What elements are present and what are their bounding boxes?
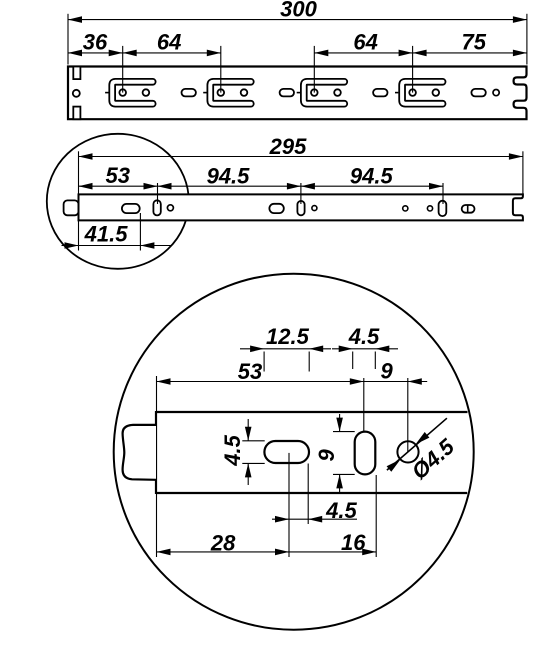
rail 2 vertical oval slot 1 [153, 200, 160, 215]
svg-text:64: 64 [157, 30, 181, 55]
extension line v-oval right edge down [375, 475, 377, 557]
top rail left bracket notch bottom [73, 107, 80, 120]
extension line v-oval3 [442, 183, 444, 204]
dimension 295 line [79, 156, 523, 158]
rail 2 hole 2 [312, 206, 317, 211]
extension line to C-slot hole [412, 46, 414, 93]
svg-text:64: 64 [353, 30, 377, 55]
svg-text:53: 53 [106, 163, 130, 188]
detail rail band [156, 411, 468, 413]
rail 2 hole 1 [167, 205, 173, 211]
oval slot after C-slot 1 [182, 89, 196, 97]
dimension 53 rail2 line [79, 185, 158, 187]
detail magnifier circle [114, 274, 474, 630]
rail 2 double oval slot [462, 205, 475, 213]
dimension 64 second line [314, 52, 412, 54]
detail callout circle on rail 2 [47, 134, 189, 269]
extension line rail1 right edge [526, 14, 528, 65]
extension line rail1 left edge [67, 14, 69, 65]
top rail body with right-end notches [68, 67, 527, 120]
svg-text:300: 300 [280, 0, 317, 22]
rail 2 hole 4 [427, 206, 432, 211]
extension line to C-slot hole [122, 46, 124, 93]
svg-text:75: 75 [462, 30, 487, 55]
dimension 9 horizontal arrow [408, 378, 422, 385]
extension line v-oval1 [157, 183, 159, 204]
extension line to C-slot hole [220, 46, 222, 93]
svg-text:Ø4.5: Ø4.5 [407, 433, 460, 484]
top rail left hole [73, 90, 80, 97]
svg-text:41.5: 41.5 [84, 221, 129, 246]
svg-text:28: 28 [210, 530, 236, 555]
svg-text:4.5: 4.5 [348, 324, 380, 349]
dimension 4.5 top line [332, 348, 398, 350]
oval slot after C-slot 2 [280, 89, 294, 97]
svg-text:9: 9 [380, 358, 393, 383]
svg-text:4.5: 4.5 [325, 498, 357, 523]
dimension 28 line [157, 551, 290, 553]
extension line rail2 left edge [78, 151, 80, 194]
svg-text:16: 16 [341, 530, 366, 555]
extension line v-oval2 [300, 183, 302, 204]
extension stubs for 4.5 top [352, 352, 354, 370]
C-slot 4 [395, 82, 443, 104]
small hole right group rail 1 [493, 90, 499, 96]
oval slot after C-slot 4 [471, 89, 485, 97]
dimension 36 line [68, 52, 123, 54]
dimension 12.5 line [240, 348, 331, 350]
extension line rail2 right edge [522, 151, 524, 194]
dimension 94.5 first line [158, 185, 301, 187]
detail horizontal oval slot [264, 441, 309, 463]
C-slot 3 [297, 82, 345, 104]
detail left tab [123, 425, 156, 480]
rail 2 horizontal oval slot 1 [122, 204, 140, 213]
svg-text:4.5: 4.5 [220, 434, 245, 466]
oval slot after C-slot 3 [373, 89, 387, 97]
svg-text:295: 295 [269, 134, 307, 159]
extension stubs for 12.5 [263, 352, 265, 372]
dimension 75 line [413, 52, 527, 54]
diameter 4.5 leader [387, 418, 447, 470]
dimension 300 line [68, 19, 527, 21]
svg-text:12.5: 12.5 [266, 324, 310, 349]
dimension 64 first line [123, 52, 221, 54]
extension line detail left edge long [156, 376, 158, 412]
vertical dimension 4.5 (slot height) [247, 419, 249, 441]
dimension 16 line [289, 551, 376, 553]
dimension 41.5 line [62, 245, 172, 247]
top rail left bracket notch top [73, 67, 80, 80]
rail 2 left tab [64, 200, 79, 215]
svg-text:36: 36 [83, 30, 108, 55]
extension line to C-slot hole [313, 46, 315, 93]
rail 2 vertical oval slot 2 [297, 201, 304, 215]
rail 2 vertical oval slot 3 [439, 201, 447, 216]
C-slot 1 [105, 82, 153, 104]
rail 2 hole 3 [403, 206, 408, 211]
detail vertical oval slot [355, 432, 376, 475]
svg-text:53: 53 [238, 359, 262, 384]
extension line oval center down [288, 453, 290, 557]
extension line 41.5 right (oval edge) [139, 213, 141, 251]
extension line oval right edge down [307, 464, 309, 525]
dimension 53 detail line [157, 381, 428, 383]
extension line 41.5 left [78, 221, 80, 251]
svg-text:94.5: 94.5 [350, 163, 394, 188]
C-slot 2 [203, 82, 251, 104]
extension line v-oval center [363, 378, 365, 431]
svg-text:9: 9 [314, 449, 339, 462]
dimension 4.5 bottom line [272, 518, 357, 520]
rail 2 horizontal oval slot 2 [269, 204, 283, 213]
extension line circle center [407, 378, 409, 453]
rail 2 body with right-end notch [79, 194, 523, 220]
vertical dimension 9 (v-oval height) [339, 414, 341, 432]
detail hole (diameter 4.5) [397, 441, 418, 462]
dimension 94.5 second line [301, 185, 443, 187]
svg-text:94.5: 94.5 [207, 163, 251, 188]
